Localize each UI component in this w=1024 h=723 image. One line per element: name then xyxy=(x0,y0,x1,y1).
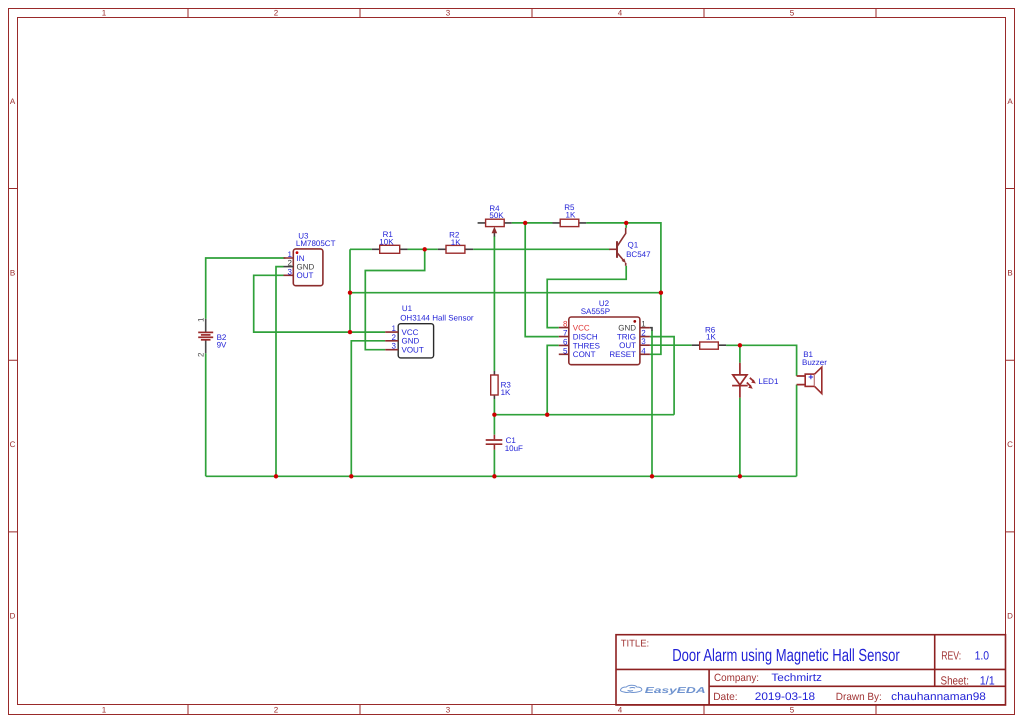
LED cathode bar xyxy=(732,385,748,387)
svg-text:OUT: OUT xyxy=(619,341,636,350)
resistor R6 xyxy=(700,342,719,349)
Q1 emitter arrowhead xyxy=(622,259,626,264)
svg-text:Company:: Company: xyxy=(714,672,759,684)
Q1 emitter xyxy=(617,253,626,266)
U3 pin-1 dot xyxy=(296,251,299,254)
svg-text:1K: 1K xyxy=(566,210,576,219)
svg-text:VCC: VCC xyxy=(573,324,590,333)
wire R1-R2 node to U1 VOUT xyxy=(365,249,424,349)
svg-text:10K: 10K xyxy=(379,238,394,247)
node 5V rail left xyxy=(348,291,352,295)
svg-text:1/1: 1/1 xyxy=(980,673,995,687)
svg-text:4: 4 xyxy=(618,9,623,18)
resistor R4 stubs xyxy=(478,222,512,224)
svg-text:LM7805CT: LM7805CT xyxy=(296,239,336,248)
wire C1 to ground rail xyxy=(493,450,495,477)
svg-text:2: 2 xyxy=(288,259,293,268)
svg-text:1K: 1K xyxy=(451,238,461,247)
svg-text:10uF: 10uF xyxy=(505,444,523,453)
wire Q1 collector stub xyxy=(625,223,627,228)
pot R4 wiper arrow xyxy=(492,227,498,234)
node R1-R2 xyxy=(423,247,427,251)
op-amp/regulator U3 box xyxy=(293,249,323,286)
wire 5V riser at R1 left xyxy=(349,249,351,332)
svg-text:C: C xyxy=(10,440,16,449)
wire ground rail xyxy=(206,475,797,477)
svg-text:9V: 9V xyxy=(217,340,227,349)
ruler letters left xyxy=(10,97,16,621)
buzzer body xyxy=(805,374,814,386)
ground node C1 xyxy=(492,474,496,478)
svg-text:RESET: RESET xyxy=(609,350,636,359)
svg-text:D: D xyxy=(1007,612,1013,621)
wire U3 GND down to ground rail xyxy=(276,267,284,477)
svg-text:Drawn By:: Drawn By: xyxy=(836,691,882,703)
svg-text:1K: 1K xyxy=(706,332,716,341)
wire U1 GND down to ground rail xyxy=(351,341,385,477)
LED triangle xyxy=(733,375,747,385)
ruler letters right xyxy=(1007,97,1013,621)
svg-text:1: 1 xyxy=(641,320,646,329)
svg-text:1: 1 xyxy=(197,317,206,322)
svg-text:EasyEDA: EasyEDA xyxy=(645,685,706,695)
battery plates xyxy=(198,331,213,333)
node R5-Q1 collector xyxy=(624,221,628,225)
Q1 base stub xyxy=(609,248,617,250)
svg-text:U1: U1 xyxy=(402,304,413,313)
svg-text:8: 8 xyxy=(563,320,568,329)
svg-text:1: 1 xyxy=(102,706,107,715)
wire R2 to Q1 base xyxy=(473,248,610,250)
U2 right pin stubs xyxy=(640,328,650,355)
svg-text:1.0: 1.0 xyxy=(975,648,990,662)
svg-text:1: 1 xyxy=(392,324,397,333)
wire R3 to C1 node xyxy=(493,399,495,435)
svg-text:A: A xyxy=(1007,97,1013,106)
svg-text:4: 4 xyxy=(641,346,646,355)
ground node U1 xyxy=(349,474,353,478)
svg-text:3: 3 xyxy=(288,267,293,276)
svg-text:B: B xyxy=(10,269,15,278)
node THRES-TRIG xyxy=(545,413,549,417)
node U3 OUT / U1 VCC xyxy=(348,330,352,334)
svg-text:5: 5 xyxy=(563,346,568,355)
svg-text:3: 3 xyxy=(446,9,451,18)
ruler numbers bottom xyxy=(102,706,795,715)
LED cathode lead xyxy=(739,386,741,398)
wire TRIG loop xyxy=(650,337,674,415)
left ruler ticks xyxy=(9,189,18,532)
resistor R6 stubs xyxy=(692,344,726,346)
node R3-C1 xyxy=(492,413,496,417)
timer U2 box xyxy=(569,317,640,365)
svg-text:OH3144 Hall Sensor: OH3144 Hall Sensor xyxy=(400,314,474,323)
wire DISCH to R4/R5 node xyxy=(525,223,559,337)
C1 leads xyxy=(493,435,495,450)
wire R1 to R2 xyxy=(408,248,438,250)
ground node U3 xyxy=(274,474,278,478)
Q1 base bar xyxy=(616,241,618,258)
wire U2 GND pin1 dark segment xyxy=(650,328,652,331)
svg-text:Techmirtz: Techmirtz xyxy=(771,672,822,684)
svg-text:GND: GND xyxy=(402,337,420,346)
resistor R1 xyxy=(380,245,400,253)
svg-text:DISCH: DISCH xyxy=(573,333,598,342)
wire Q1 emitter to U2 VCC xyxy=(547,266,626,328)
svg-text:Sheet:: Sheet: xyxy=(941,673,970,687)
svg-text:2: 2 xyxy=(274,9,279,18)
svg-text:TITLE:: TITLE: xyxy=(621,638,650,649)
title block xyxy=(616,635,1006,705)
svg-text:BC547: BC547 xyxy=(626,250,651,259)
top ruler ticks xyxy=(188,9,876,18)
wire battery- to ground rail xyxy=(205,353,207,476)
right ruler ticks xyxy=(1006,189,1015,532)
svg-text:Door Alarm using Magnetic Hall: Door Alarm using Magnetic Hall Sensor xyxy=(672,645,900,665)
node OUT-LED xyxy=(738,343,742,347)
svg-text:D: D xyxy=(10,612,16,621)
svg-text:B: B xyxy=(1007,269,1012,278)
wire 5V rail xyxy=(350,292,661,294)
LED anode lead xyxy=(739,363,741,375)
svg-text:50K: 50K xyxy=(489,211,504,220)
wire R1 left xyxy=(350,248,372,250)
Q1 collector xyxy=(617,228,626,247)
pot R4 body xyxy=(486,219,505,226)
resistor R3 stubs xyxy=(493,371,495,399)
C1 plates xyxy=(486,440,503,444)
resistor R2 xyxy=(446,245,465,253)
svg-text:Buzzer: Buzzer xyxy=(802,358,827,367)
bottom ruler ticks xyxy=(188,705,876,715)
svg-text:2: 2 xyxy=(197,352,206,357)
wire LED cathode to ground rail xyxy=(739,398,741,477)
U2 pin-1 dot xyxy=(633,320,636,323)
svg-text:A: A xyxy=(10,97,16,106)
wire THRES riser xyxy=(547,345,559,414)
svg-text:VOUT: VOUT xyxy=(402,346,424,355)
svg-text:2019-03-18: 2019-03-18 xyxy=(755,691,815,703)
wire R4 wiper to R3 xyxy=(493,236,495,371)
svg-text:CONT: CONT xyxy=(573,350,596,359)
resistor R3 xyxy=(491,375,498,395)
svg-text:7: 7 xyxy=(563,329,568,338)
ground node LED xyxy=(738,474,742,478)
battery pin leads xyxy=(205,319,207,353)
svg-text:3: 3 xyxy=(392,342,397,351)
wire battery+ to U3 IN xyxy=(206,258,286,319)
svg-text:Date:: Date: xyxy=(713,691,737,703)
svg-text:C: C xyxy=(1007,440,1013,449)
svg-text:1: 1 xyxy=(102,9,107,18)
svg-text:+: + xyxy=(808,372,813,382)
svg-text:GND: GND xyxy=(618,324,636,333)
svg-text:VCC: VCC xyxy=(402,328,419,337)
node R4-R5/DISCH xyxy=(523,221,527,225)
wire THRES/TRIG/C1 horizontal xyxy=(494,414,674,416)
resistor R5 xyxy=(560,219,579,226)
svg-text:REV:: REV: xyxy=(941,648,961,662)
svg-text:6: 6 xyxy=(563,337,568,346)
hall sensor U1 box xyxy=(398,324,433,358)
svg-text:1K: 1K xyxy=(501,388,511,397)
svg-text:2: 2 xyxy=(392,333,397,342)
pot R4 wiper stem xyxy=(493,232,495,237)
svg-text:LED1: LED1 xyxy=(758,377,779,386)
wire U2 GND down to ground rail xyxy=(651,330,653,476)
svg-text:THRES: THRES xyxy=(573,341,600,350)
wire buzzer- to ground rail xyxy=(796,385,798,477)
resistor R1 stubs xyxy=(372,248,408,250)
ruler numbers top xyxy=(102,9,795,18)
svg-text:3: 3 xyxy=(641,337,646,346)
svg-text:5: 5 xyxy=(790,9,795,18)
svg-text:GND: GND xyxy=(297,263,315,272)
svg-text:5: 5 xyxy=(790,706,795,715)
buzzer horn xyxy=(815,367,822,394)
svg-text:2: 2 xyxy=(274,706,279,715)
buzzer terminal stubs xyxy=(797,376,806,385)
ground node U2 xyxy=(650,474,654,478)
LED emission arrows xyxy=(747,378,754,387)
wire U3 OUT to U1 VCC node xyxy=(254,275,386,332)
U3 pin stubs xyxy=(284,258,294,275)
svg-text:3: 3 xyxy=(446,706,451,715)
svg-text:4: 4 xyxy=(618,706,623,715)
wire LED anode xyxy=(739,345,741,363)
wire R6 to buzzer xyxy=(726,345,797,376)
wire OUT to R6 xyxy=(650,344,692,346)
wire top rail R5 to RESET riser xyxy=(586,223,661,354)
EasyEDA logo xyxy=(621,685,706,695)
svg-text:chauhannaman98: chauhannaman98 xyxy=(891,691,986,703)
node 5V rail right xyxy=(659,291,663,295)
U2 left pin stubs xyxy=(559,328,569,355)
U1 pin stubs xyxy=(385,332,398,350)
svg-text:SA555P: SA555P xyxy=(581,307,610,316)
wire top rail R4 to R5 xyxy=(512,222,553,224)
svg-text:OUT: OUT xyxy=(297,271,314,280)
svg-text:Q1: Q1 xyxy=(628,240,639,249)
resistor R5 stubs xyxy=(553,222,587,224)
resistor R2 stubs xyxy=(438,248,473,250)
